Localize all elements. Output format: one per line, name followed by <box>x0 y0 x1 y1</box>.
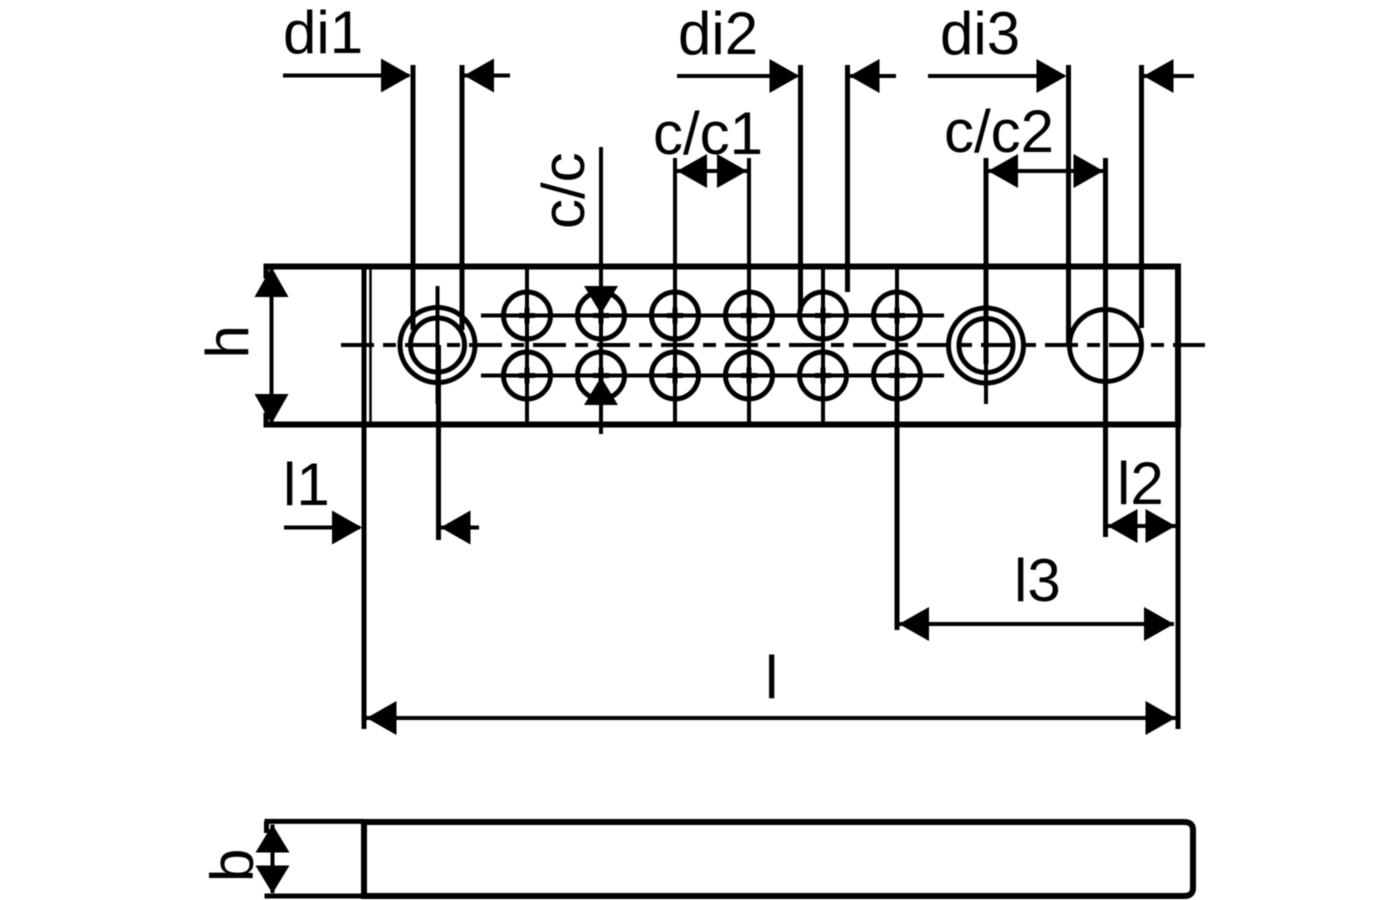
svg-text:di3: di3 <box>940 0 1020 67</box>
svg-text:c/c1: c/c1 <box>653 100 763 167</box>
svg-text:di2: di2 <box>678 0 758 67</box>
svg-text:di1: di1 <box>283 0 363 66</box>
svg-text:c/c2: c/c2 <box>944 98 1054 165</box>
svg-text:l1: l1 <box>283 451 330 518</box>
svg-text:b: b <box>199 849 266 882</box>
svg-text:h: h <box>194 325 261 358</box>
svg-text:c/c: c/c <box>530 152 597 229</box>
svg-text:l2: l2 <box>1117 450 1164 517</box>
svg-text:l3: l3 <box>1014 547 1061 614</box>
svg-text:l: l <box>765 644 778 711</box>
